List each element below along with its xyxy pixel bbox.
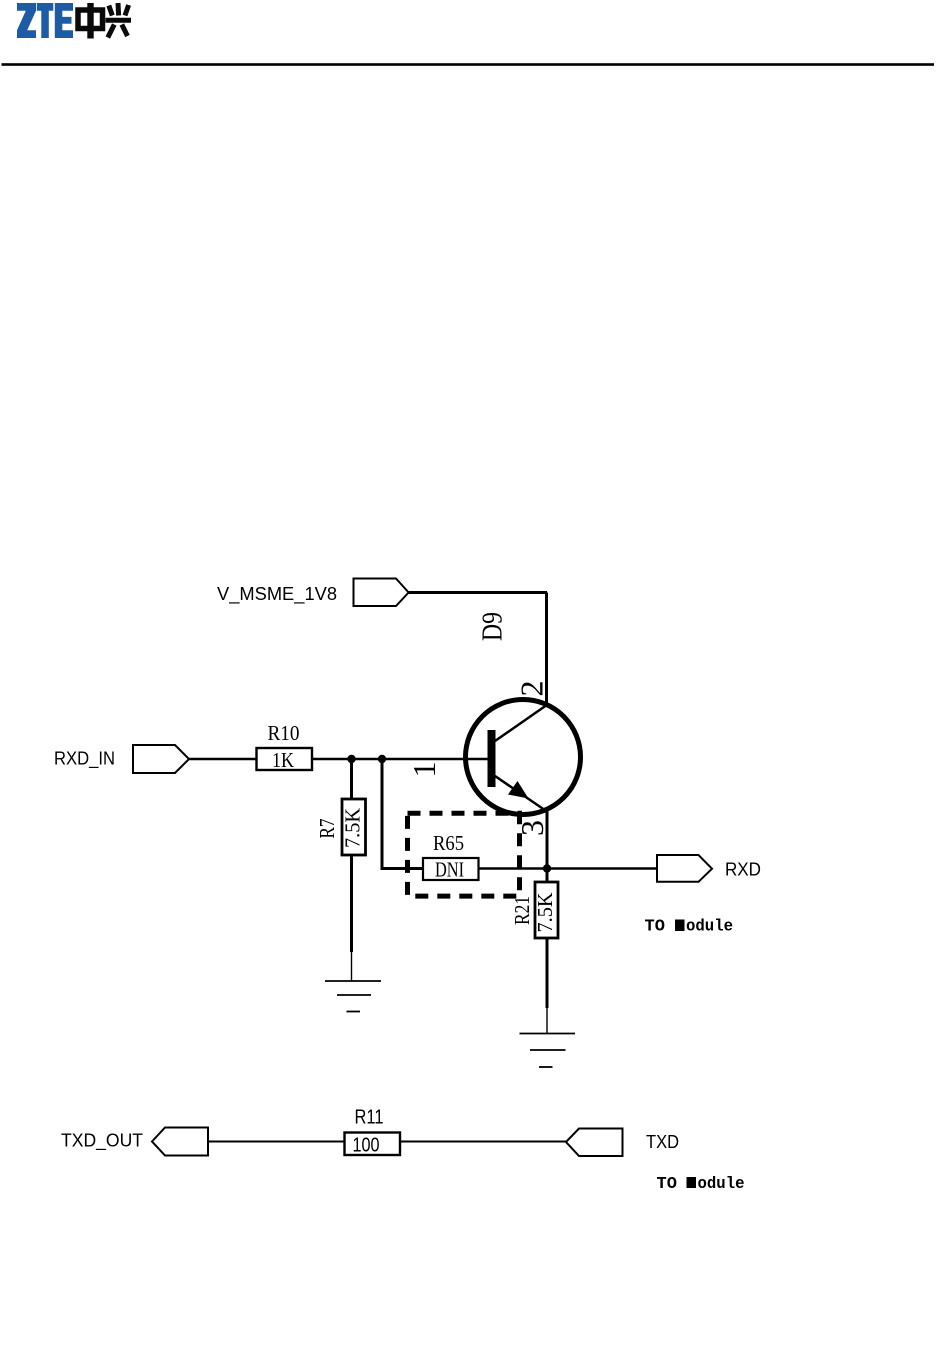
- wire emitter down: [546, 810, 549, 882]
- wire TXD_OUT to R11: [208, 1141, 345, 1143]
- svg-text:7.5K: 7.5K: [533, 893, 557, 933]
- ground stem G2: [546, 1008, 548, 1034]
- svg-text:TXD: TXD: [646, 1132, 679, 1152]
- DNI dashed box: [408, 813, 520, 896]
- wire RXD_IN to R10: [189, 758, 257, 760]
- ground stem G1: [351, 952, 353, 981]
- power flag V_MSME_1V8: [354, 579, 409, 607]
- text TO Module 1: [645, 918, 734, 937]
- wire node B down: [381, 759, 384, 869]
- wire R7 to ground: [350, 855, 353, 952]
- svg-text:RXD_IN: RXD_IN: [54, 749, 115, 770]
- port flag RXD_IN: [133, 745, 189, 773]
- svg-text:1K: 1K: [272, 748, 294, 772]
- junction node A: [347, 755, 355, 763]
- wire node B to R65: [381, 867, 424, 870]
- svg-text:7.5K: 7.5K: [341, 808, 365, 848]
- wire R10 to base: [312, 758, 488, 760]
- svg-text:odule: odule: [686, 918, 733, 937]
- transistor Q1 base bar: [488, 730, 496, 787]
- transistor Q1 emitter stroke: [495, 776, 546, 811]
- resistor R65 body: [423, 858, 479, 880]
- ground G1: [325, 981, 381, 1012]
- port flag RXD: [657, 855, 712, 882]
- svg-text:2: 2: [514, 681, 550, 697]
- svg-text:RXD: RXD: [725, 860, 761, 880]
- wire R11 to TXD flag: [400, 1141, 566, 1143]
- svg-text:1: 1: [406, 762, 442, 778]
- svg-text:DNI: DNI: [435, 858, 464, 882]
- resistor R7 body: [342, 799, 366, 855]
- svg-text:R10: R10: [268, 721, 300, 745]
- junction node B: [378, 755, 386, 763]
- svg-text:R21: R21: [510, 896, 534, 925]
- svg-text:R7: R7: [315, 819, 339, 839]
- svg-text:V_MSME_1V8: V_MSME_1V8: [217, 584, 337, 605]
- svg-text:TO: TO: [645, 918, 665, 937]
- wire R21 to ground: [546, 938, 549, 1008]
- resistor R21 body: [535, 882, 558, 938]
- junction node C: [543, 864, 551, 872]
- svg-text:D9: D9: [477, 612, 509, 641]
- svg-text:odule: odule: [698, 1175, 745, 1194]
- transistor Q1 circle: [466, 700, 581, 815]
- ZTE logo: [17, 3, 131, 39]
- wire V_MSME_1V8 horizontal: [409, 591, 548, 594]
- resistor R11 body: [345, 1133, 401, 1156]
- transistor Q1 emitter arrow: [508, 781, 529, 799]
- svg-text:100: 100: [353, 1135, 380, 1157]
- wire node C to RXD flag: [547, 867, 656, 870]
- transistor Q1 collector stroke: [495, 705, 548, 742]
- svg-text:TO: TO: [657, 1175, 677, 1194]
- text TO Module 2: [657, 1175, 745, 1194]
- wire node A to R7: [350, 759, 353, 799]
- header rule: [2, 63, 935, 66]
- svg-text:TXD_OUT: TXD_OUT: [61, 1131, 143, 1152]
- ground G2: [520, 1034, 576, 1068]
- port flag TXD: [566, 1129, 623, 1157]
- resistor R10 body: [257, 748, 313, 770]
- port flag TXD_OUT: [152, 1128, 208, 1156]
- svg-text:R11: R11: [355, 1107, 384, 1129]
- svg-text:R65: R65: [433, 831, 464, 855]
- wire collector vertical: [545, 593, 548, 706]
- wire R65 to node C: [479, 867, 548, 870]
